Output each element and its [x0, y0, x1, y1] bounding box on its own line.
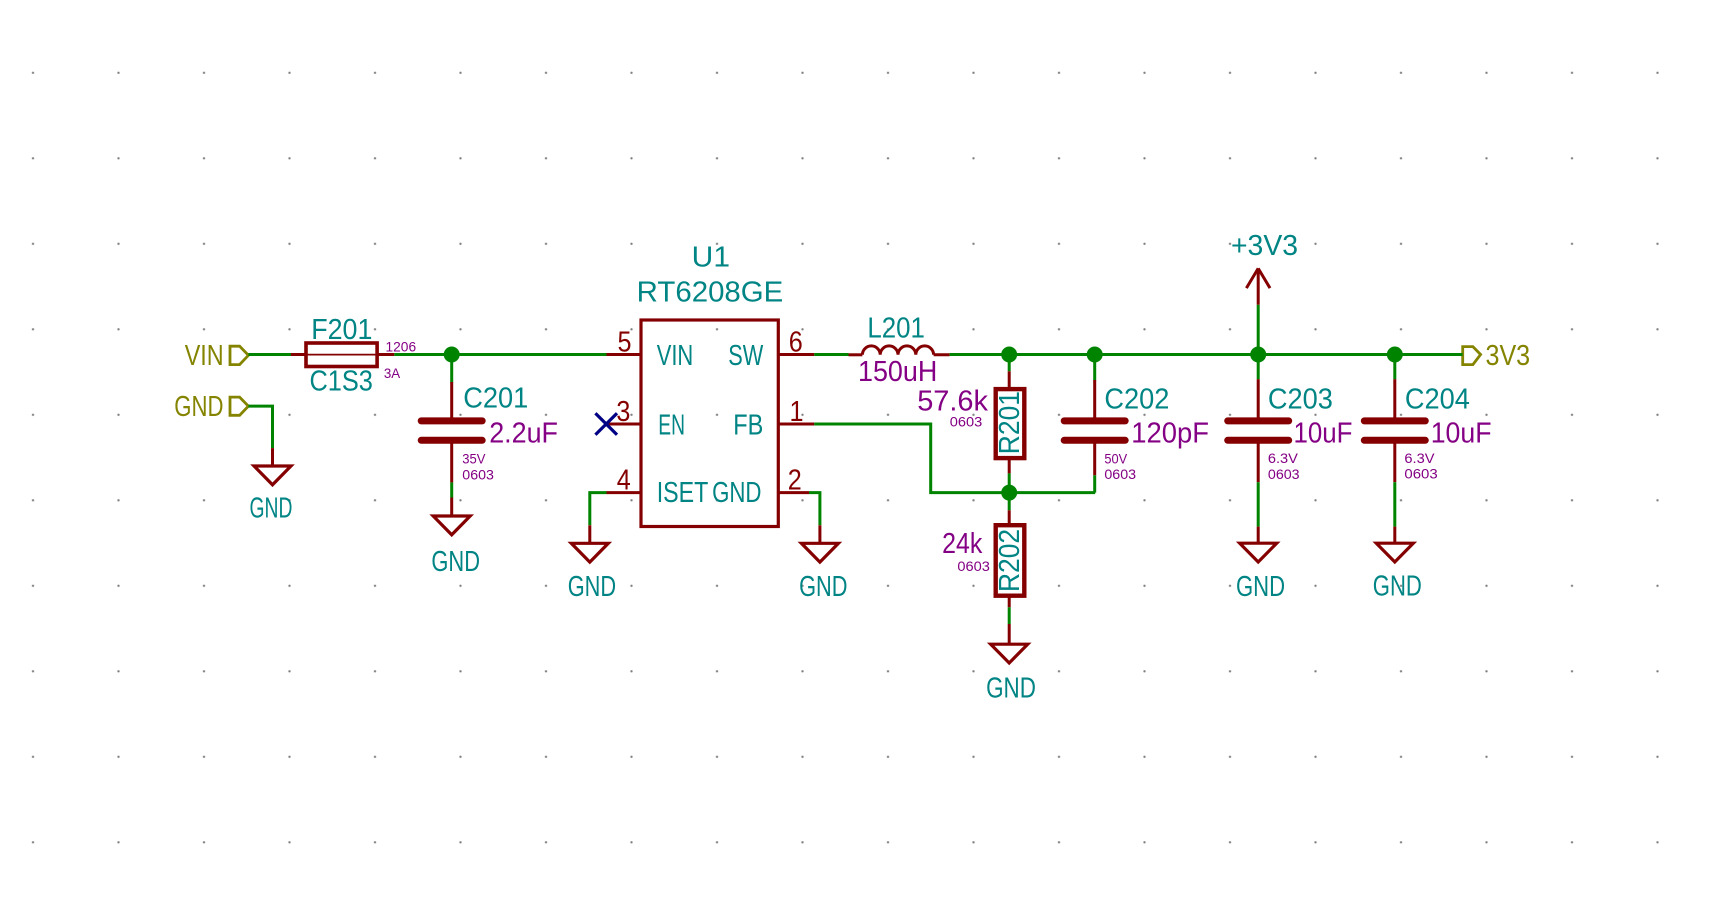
inductor L201 [849, 346, 950, 355]
svg-text:6.3V: 6.3V [1268, 450, 1299, 466]
label C201 footprint 0603 [462, 466, 494, 482]
label L201 value 150uH [858, 356, 937, 388]
label F201 reference [311, 314, 372, 346]
label C202 voltage 50V [1104, 450, 1127, 466]
svg-text:VIN: VIN [185, 340, 224, 372]
port GND [174, 391, 248, 423]
wire SW to L201 [814, 353, 848, 356]
capacitor C204 [1364, 379, 1425, 482]
label C202 reference [1104, 384, 1169, 416]
svg-text:1: 1 [790, 396, 804, 428]
svg-text:0603: 0603 [957, 558, 990, 574]
svg-text:L201: L201 [867, 313, 925, 345]
wire U1 pin4 to ground [590, 493, 607, 526]
svg-text:0603: 0603 [1268, 466, 1300, 482]
capacitor C202 [1064, 380, 1125, 475]
power symbol +3V3 [1231, 230, 1298, 305]
wire U1 pin2 to ground [809, 493, 820, 526]
wire GND port down [248, 406, 272, 448]
label C203 voltage 6.3V [1268, 450, 1299, 466]
svg-text:10uF: 10uF [1431, 417, 1492, 449]
svg-text:GND: GND [1236, 571, 1285, 603]
label C203 footprint 0603 [1268, 466, 1300, 482]
wire C203 top [1257, 355, 1260, 380]
junction A (VIN rail / C201) [444, 347, 460, 363]
svg-text:GND: GND [1373, 571, 1422, 603]
label C201 voltage 35V [462, 450, 486, 466]
svg-text:C1S3: C1S3 [310, 366, 373, 398]
svg-text:EN: EN [658, 409, 685, 441]
svg-text:GND: GND [712, 477, 761, 509]
svg-text:6: 6 [789, 326, 803, 358]
label R201 value 57.6k [917, 385, 988, 417]
label F201 value C1S3 [310, 366, 373, 398]
capacitor C203 [1228, 379, 1289, 482]
wire C204 to ground [1393, 482, 1396, 526]
svg-text:VIN: VIN [657, 340, 694, 372]
svg-text:6.3V: 6.3V [1404, 450, 1435, 466]
ground symbol below C204 [1373, 527, 1422, 603]
op-amp U1 body [641, 320, 778, 527]
junction C (FB node) [1001, 485, 1017, 501]
svg-text:3A: 3A [384, 365, 401, 381]
label C204 reference [1405, 384, 1470, 416]
wire C202 bottom [1093, 475, 1096, 492]
svg-text:150uH: 150uH [858, 356, 937, 388]
svg-text:U1: U1 [692, 242, 730, 274]
svg-text:0603: 0603 [1104, 466, 1136, 482]
svg-text:2.2uF: 2.2uF [489, 417, 558, 449]
capacitor C201 [421, 382, 482, 482]
resistor R202 [996, 510, 1025, 607]
wire C204 top [1393, 355, 1396, 380]
label C203 reference [1268, 384, 1333, 416]
svg-text:3: 3 [616, 396, 630, 428]
label C203 value 10uF [1294, 417, 1353, 449]
label C202 value 120pF [1131, 417, 1209, 449]
svg-text:GND: GND [250, 493, 293, 525]
wire FB node to R202 [1008, 493, 1011, 511]
wire R202 to ground [1008, 607, 1011, 624]
wire junction A to C201 [450, 355, 453, 383]
svg-text:3V3: 3V3 [1486, 340, 1531, 372]
wire +3V3 to rail [1257, 305, 1260, 355]
ground symbol at GND port [250, 448, 293, 524]
label C202 footprint 0603 [1104, 466, 1136, 482]
svg-text:GND: GND [986, 672, 1036, 704]
no-connect X on pin 3 [595, 413, 617, 435]
svg-text:F201: F201 [311, 314, 372, 346]
ground symbol below C203 [1236, 527, 1285, 603]
svg-text:R201: R201 [994, 391, 1026, 454]
svg-text:GND: GND [174, 391, 223, 423]
svg-text:0603: 0603 [462, 466, 494, 482]
ground symbol below C201 [431, 498, 480, 578]
label C201 value 2.2uF [489, 417, 558, 449]
svg-text:5: 5 [618, 326, 632, 358]
junction B (rail / R201) [1001, 347, 1017, 363]
svg-text:4: 4 [617, 464, 631, 496]
resistor R201 [996, 371, 1025, 473]
wire C202 top [1093, 355, 1096, 381]
wire VIN port to F201 [248, 353, 291, 356]
junction F (rail / C204) [1387, 347, 1403, 363]
label R202 reference (rotated) [994, 529, 1026, 592]
wire R201 top [1008, 355, 1011, 372]
U1 pin 6 SW [728, 326, 814, 372]
label U1 value RT6208GE [637, 277, 784, 309]
svg-text:+3V3: +3V3 [1231, 230, 1298, 262]
U1 pin 2 GND [712, 464, 809, 508]
ground symbol below U1 pin2 [799, 525, 847, 603]
U1 pin 4 ISET [607, 464, 709, 508]
label C204 footprint 0603 [1404, 465, 1438, 481]
svg-text:10uF: 10uF [1294, 417, 1353, 449]
svg-text:120pF: 120pF [1131, 417, 1209, 449]
svg-text:50V: 50V [1104, 450, 1127, 466]
label R202 value 24k [942, 528, 983, 560]
svg-text:ISET: ISET [657, 477, 709, 509]
wire F201 to U1 pin5 [394, 353, 606, 356]
fuse F201 [291, 343, 394, 367]
svg-text:GND: GND [568, 571, 616, 603]
svg-text:0603: 0603 [950, 413, 983, 429]
U1 pin 1 FB [733, 396, 814, 442]
junction D (rail / C202) [1087, 347, 1103, 363]
label C204 value 10uF [1431, 417, 1492, 449]
port 3V3 [1463, 340, 1530, 372]
svg-text:35V: 35V [462, 450, 486, 466]
ground symbol below ISET [568, 525, 616, 603]
svg-text:C201: C201 [463, 383, 528, 415]
svg-text:R202: R202 [994, 529, 1026, 592]
junction E (rail / C203 / +3V3) [1250, 347, 1266, 363]
svg-text:C202: C202 [1104, 384, 1169, 416]
label R202 footprint 0603 [957, 558, 990, 574]
svg-text:1206: 1206 [386, 339, 417, 355]
svg-text:GND: GND [431, 546, 480, 578]
label F201 footprint 1206 [386, 339, 417, 355]
label C201 reference [463, 383, 528, 415]
label L201 reference [867, 313, 925, 345]
svg-text:C203: C203 [1268, 384, 1333, 416]
svg-text:C204: C204 [1405, 384, 1470, 416]
U1 pin 5 VIN [607, 326, 694, 372]
svg-text:SW: SW [728, 340, 763, 372]
wire C201 to ground [450, 482, 453, 497]
svg-text:FB: FB [733, 409, 763, 441]
U1 pin 3 EN [606, 396, 685, 442]
wire C203 to ground [1257, 482, 1260, 526]
wire FB net [814, 424, 1095, 493]
wire L201 to 3V3 port [950, 353, 1463, 356]
svg-text:24k: 24k [942, 528, 983, 560]
label U1 reference [692, 242, 730, 274]
port VIN [185, 340, 249, 372]
label R201 footprint 0603 [950, 413, 983, 429]
label F201 rating 3A [384, 365, 401, 381]
wire R201 bottom to FB node [1008, 473, 1011, 492]
svg-text:GND: GND [799, 571, 847, 603]
svg-text:RT6208GE: RT6208GE [637, 277, 784, 309]
svg-text:0603: 0603 [1404, 465, 1438, 481]
svg-text:2: 2 [788, 464, 802, 496]
label C204 voltage 6.3V [1404, 450, 1435, 466]
ground symbol below R202 [986, 624, 1036, 704]
label R201 reference (rotated) [994, 391, 1026, 454]
